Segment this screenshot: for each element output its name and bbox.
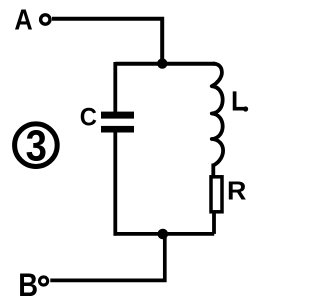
wire top rail <box>115 62 215 66</box>
wire bottom rail <box>114 232 215 236</box>
svg-text:R: R <box>227 177 246 205</box>
wire capacitor top lead <box>113 62 117 113</box>
resistor R <box>211 177 222 212</box>
terminal A <box>41 15 50 24</box>
wire resistor bottom lead <box>212 212 216 234</box>
capacitor C top plate <box>101 112 134 119</box>
wire inductor to resistor <box>211 164 215 179</box>
node bottom junction <box>158 229 169 240</box>
svg-text:B: B <box>18 267 38 301</box>
node top junction <box>157 58 167 68</box>
label L <box>235 93 244 109</box>
wire from terminal A to top node <box>52 19 162 61</box>
period after L <box>243 106 248 111</box>
inductor L <box>212 64 223 166</box>
svg-text:A: A <box>14 5 32 37</box>
svg-text:3: 3 <box>26 122 47 171</box>
wire capacitor bottom lead <box>113 131 117 236</box>
figure number circle <box>15 124 58 167</box>
capacitor C bottom plate <box>101 126 134 133</box>
svg-text:C: C <box>80 104 97 132</box>
terminal B <box>40 277 48 285</box>
wire from bottom node to terminal B <box>50 234 165 280</box>
